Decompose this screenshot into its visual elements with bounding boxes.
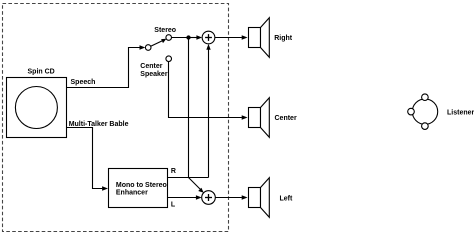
listener head [412,99,437,124]
svg-text:Center: Center [140,63,162,70]
Spin CD box [7,78,67,138]
junction dot [186,35,190,39]
wire left summer to Left speaker [215,195,247,199]
listener nose left [408,108,415,115]
wire L output to left summer [168,195,202,199]
svg-text:Speaker: Speaker [140,71,168,78]
wire junction to right summer [189,35,203,39]
wire R output up to right summer [206,44,210,178]
wire R output [168,177,209,179]
switch pole [145,45,151,51]
svg-text:Center: Center [275,115,297,122]
svg-text:Right: Right [274,35,293,42]
switch throw Stereo [166,35,172,41]
speaker Center [249,98,270,138]
CD disc [15,87,57,129]
summing junction right [202,31,215,44]
switch throw Center Speaker [166,56,172,62]
svg-text:Multi-Talker Bable: Multi-Talker Bable [69,121,129,128]
summing junction left [202,191,216,205]
svg-text:Spin CD: Spin CD [28,69,55,76]
Mono to Stereo Enhancer box [109,169,168,208]
svg-text:Speech: Speech [71,79,96,86]
svg-text:Enhancer: Enhancer [116,190,148,197]
svg-text:Left: Left [280,195,294,202]
switch lever wire [151,39,167,47]
svg-text:Mono to Stereo: Mono to Stereo [116,182,167,189]
svg-text:Listener: Listener [447,110,474,117]
listener ear top [422,94,429,101]
wire center speaker feed [169,61,248,119]
wire right summer to Right speaker [215,35,248,39]
wire Multi-Talker Bable output [67,128,109,191]
svg-text:R: R [171,168,176,175]
wire stereo throw to junction [172,37,189,39]
listener ear bottom [422,123,429,130]
dashed room boundary [3,4,229,232]
wire speech down from junction [188,40,190,178]
speaker Left [249,178,270,218]
svg-text:L: L [171,201,176,208]
speaker Right [249,18,270,58]
wire speech diagonal to left summer [189,178,204,193]
svg-text:Stereo: Stereo [154,27,176,34]
wire Speech output [67,45,146,87]
